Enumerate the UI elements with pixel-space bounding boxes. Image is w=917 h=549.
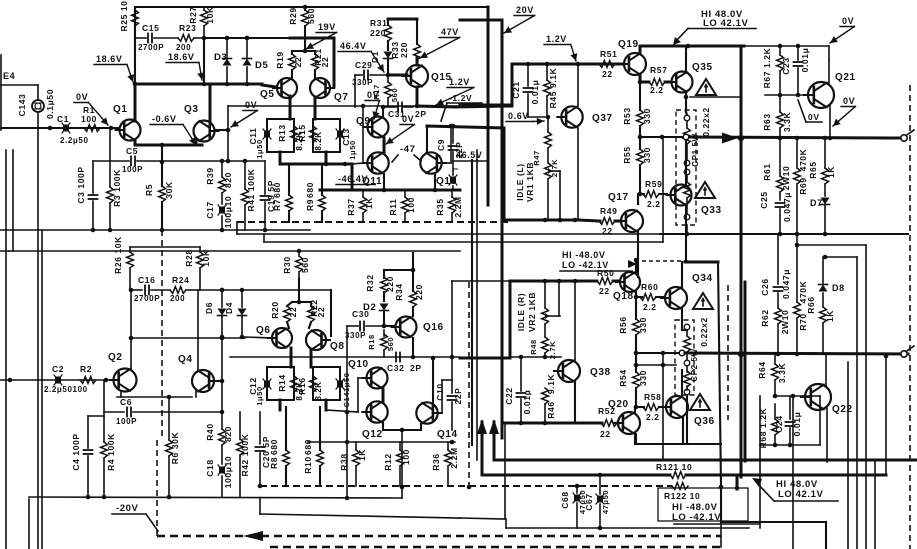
- wire Q33 coll: [685, 138, 687, 184]
- svg-text:Q1: Q1: [113, 104, 128, 115]
- resistor R31: [370, 18, 391, 50]
- pot VR2: [542, 281, 560, 337]
- label 0V Q9: [365, 90, 380, 119]
- wire Q38 emitter: [574, 382, 576, 423]
- svg-text:Q12: Q12: [362, 429, 383, 440]
- capacitor C32: [387, 353, 422, 374]
- wire Q35 coll: [685, 46, 687, 72]
- dashed bus 486: [260, 485, 672, 487]
- svg-text:2.7K: 2.7K: [550, 159, 559, 177]
- svg-text:R63: R63: [762, 113, 772, 130]
- svg-text:C25: C25: [759, 191, 769, 208]
- wire C21R45 bot: [528, 116, 548, 118]
- wire nest b7: [735, 282, 745, 490]
- svg-text:R59: R59: [645, 179, 662, 189]
- wire fb nest 2: [823, 255, 857, 549]
- svg-text:680: 680: [305, 182, 315, 198]
- svg-text:R67 1.2K: R67 1.2K: [762, 47, 772, 88]
- svg-text:2P: 2P: [410, 363, 422, 373]
- resistor R36: [431, 442, 459, 486]
- capacitor C143: [17, 94, 44, 117]
- capacitor C25: [759, 191, 792, 236]
- wire nest b3: [759, 445, 761, 528]
- capacitor C30: [345, 309, 384, 412]
- svg-text:Q37: Q37: [592, 113, 613, 124]
- wire Q38 base bus: [510, 355, 561, 360]
- svg-text:Q10: Q10: [348, 359, 369, 370]
- wire Q17 coll: [637, 194, 639, 204]
- wire Q9-Q11: [383, 138, 386, 152]
- transistor Q6: [256, 325, 292, 348]
- warning triangle Q35: [696, 79, 716, 95]
- resistor R62: [760, 234, 791, 308]
- svg-text:C2: C2: [52, 364, 64, 374]
- svg-text:R39: R39: [205, 167, 215, 184]
- svg-text:LO 42.1V: LO 42.1V: [703, 18, 749, 29]
- svg-text:560: 560: [386, 337, 395, 351]
- wire Q2 coll: [130, 338, 132, 370]
- svg-text:C5: C5: [126, 146, 138, 156]
- svg-text:22: 22: [288, 307, 298, 318]
- svg-text:D7: D7: [810, 198, 823, 208]
- label 20V: [504, 5, 535, 33]
- wire 20V rail a: [305, 7, 488, 205]
- dashed vert 724: [727, 285, 729, 420]
- dashed R5 fb: [162, 230, 471, 489]
- capacitor C1: [57, 114, 89, 145]
- svg-text:R32: R32: [365, 274, 375, 291]
- wire 84 rail ext: [212, 83, 262, 86]
- svg-text:R37: R37: [346, 198, 356, 215]
- svg-text:Q21: Q21: [835, 72, 856, 83]
- resistor R32: [365, 253, 415, 301]
- svg-text:1K: 1K: [357, 449, 367, 461]
- svg-text:8.2K: 8.2K: [314, 131, 323, 150]
- resistor R63: [762, 95, 792, 137]
- resistor R55: [622, 146, 652, 196]
- resistor R16: [297, 367, 340, 401]
- resistor R52: [578, 406, 618, 439]
- wire 234 bus: [237, 222, 660, 234]
- capacitor C23: [781, 46, 810, 95]
- svg-text:Q7: Q7: [334, 92, 349, 103]
- label HI48 top: [673, 9, 756, 45]
- svg-text:R64: R64: [757, 361, 767, 378]
- resistor R68: [760, 396, 775, 445]
- transistor Q20: [608, 399, 640, 434]
- svg-text:C3 100P: C3 100P: [76, 166, 86, 203]
- svg-text:R56: R56: [618, 316, 628, 333]
- resistor R14: [277, 374, 304, 400]
- wire R68 box: [760, 396, 820, 445]
- wire idle L net: [546, 115, 551, 132]
- diode D1: [370, 51, 393, 77]
- diode D3: [214, 36, 232, 87]
- label CP1: [691, 107, 711, 167]
- svg-text:2.2: 2.2: [647, 199, 661, 209]
- svg-text:D6: D6: [204, 302, 214, 314]
- svg-text:0.01μ: 0.01μ: [792, 412, 802, 437]
- wire top rail: [135, 5, 307, 10]
- svg-text:CP2 5W: CP2 5W: [690, 348, 699, 381]
- resistor R10: [303, 407, 323, 486]
- resistor R27: [135, 6, 215, 38]
- transistor Q5: [260, 78, 297, 100]
- label HI48 low: [752, 478, 838, 501]
- svg-text:C10: C10: [435, 383, 445, 400]
- svg-text:-47: -47: [400, 144, 416, 155]
- label -1.2V: [441, 93, 482, 121]
- wire C6768 bot: [506, 519, 749, 528]
- svg-text:LO -42.1V: LO -42.1V: [672, 512, 721, 523]
- svg-text:0.22x2: 0.22x2: [699, 317, 709, 347]
- wire right rail low: [743, 410, 745, 462]
- svg-text:Q19: Q19: [618, 39, 639, 50]
- resistor R22: [308, 299, 326, 328]
- capacitor C13 1u50: [336, 128, 357, 159]
- capacitor C2: [44, 364, 88, 394]
- svg-text:0.1μ50: 0.1μ50: [45, 89, 55, 119]
- rail R56 R54: [635, 297, 637, 319]
- resistor R3: [107, 128, 122, 230]
- svg-text:R15: R15: [297, 124, 307, 141]
- svg-text:R27: R27: [188, 6, 198, 23]
- svg-text:220: 220: [370, 28, 386, 38]
- svg-text:22: 22: [316, 307, 326, 318]
- transistor Q14: [416, 380, 457, 440]
- svg-text:R38: R38: [339, 453, 349, 470]
- wire Q36 emitter: [635, 418, 721, 444]
- wire 18.6V node rail: [134, 38, 136, 84]
- wire 412: [240, 411, 260, 413]
- svg-text:R25 10: R25 10: [119, 0, 129, 31]
- dashed bus 222: [237, 221, 510, 223]
- transistor Q10: [348, 359, 388, 412]
- svg-text:330: 330: [642, 147, 652, 163]
- svg-text:22P: 22P: [454, 142, 464, 159]
- svg-text:2.2μ50100: 2.2μ50100: [44, 385, 88, 394]
- svg-text:R10: R10: [303, 456, 313, 473]
- resistor R54: [618, 365, 648, 409]
- svg-text:R4 100K: R4 100K: [106, 433, 116, 471]
- svg-text:R14: R14: [277, 374, 287, 391]
- svg-text:IDLE (L): IDLE (L): [515, 163, 525, 200]
- svg-text:R2: R2: [80, 364, 92, 374]
- label 0V Q1: [74, 92, 108, 125]
- svg-text:C24: C24: [774, 415, 784, 432]
- wire Q16 base: [384, 325, 395, 327]
- resistor R40: [205, 412, 233, 445]
- wire 161 thin: [93, 160, 265, 162]
- svg-text:22: 22: [602, 69, 613, 79]
- sensor CP2 box: [675, 320, 694, 395]
- label 18.6V a: [94, 54, 134, 82]
- capacitor C22: [504, 355, 532, 423]
- transistor Q8: [306, 330, 345, 352]
- svg-text:R48: R48: [529, 339, 538, 355]
- wire gnd bus upper: [0, 228, 310, 233]
- wire Q34 coll: [681, 262, 683, 288]
- label -20V: [112, 503, 158, 531]
- svg-text:0V: 0V: [76, 92, 88, 102]
- wire R31 top: [388, 18, 417, 21]
- capacitor C19: [261, 161, 277, 232]
- resistor R29: [288, 7, 316, 51]
- label 46.4V: [338, 41, 384, 72]
- label HI-48 low box: [658, 488, 760, 524]
- svg-text:C1: C1: [57, 114, 69, 124]
- capacitor C12: [248, 367, 294, 406]
- svg-text:R66: R66: [806, 296, 816, 313]
- svg-text:100P: 100P: [116, 417, 137, 426]
- resistor R61: [762, 138, 791, 200]
- svg-text:R20: R20: [270, 301, 280, 318]
- capacitor C29: [352, 60, 388, 107]
- transistor Q22: [801, 384, 853, 415]
- wire Q13 up: [415, 104, 420, 109]
- resistor CP1a: [684, 115, 691, 166]
- capacitor C67: [584, 473, 610, 531]
- wire out bus 234: [660, 233, 908, 235]
- resistor R12: [383, 442, 411, 486]
- resistor R68b: [758, 396, 778, 448]
- wire R20R22 top: [292, 279, 311, 304]
- svg-text:2700P: 2700P: [134, 294, 160, 303]
- resistor R60: [634, 258, 688, 300]
- wire 64 bus: [512, 62, 624, 67]
- diode D6: [204, 288, 227, 340]
- svg-text:19V: 19V: [318, 22, 336, 32]
- svg-text:8.2K: 8.2K: [314, 381, 323, 400]
- resistor R1: [81, 105, 100, 131]
- capacitor C68: [560, 484, 587, 528]
- resistor R121: [656, 462, 692, 478]
- svg-text:R122 10: R122 10: [664, 491, 700, 501]
- wire right 46 rail: [744, 44, 829, 49]
- svg-text:VR1 1KB: VR1 1KB: [525, 162, 535, 202]
- svg-text:100μ10: 100μ10: [223, 456, 233, 488]
- wire 357 bus: [230, 356, 460, 358]
- svg-text:R34: R34: [394, 283, 404, 300]
- wire out bus 354: [634, 350, 908, 357]
- label 0V Q11: [386, 114, 414, 144]
- wire idle2 bus: [505, 421, 575, 519]
- label 18.6V b: [166, 52, 204, 80]
- resistor R9: [305, 164, 325, 222]
- warning triangle Q34: [693, 293, 713, 309]
- svg-text:C15: C15: [142, 23, 159, 33]
- wire q15 47 rail: [416, 58, 419, 65]
- wire thick 105: [460, 64, 512, 105]
- svg-text:0V: 0V: [843, 96, 855, 106]
- svg-text:VR2 1KB: VR2 1KB: [527, 292, 537, 332]
- wire nest b8: [685, 206, 724, 489]
- resistor R59: [640, 179, 667, 209]
- svg-text:100: 100: [81, 114, 97, 124]
- resistor R51: [578, 49, 624, 79]
- svg-text:0.01μ: 0.01μ: [800, 48, 810, 73]
- resistor R8: [269, 407, 289, 486]
- svg-text:R36: R36: [431, 453, 441, 470]
- terminal out2: [901, 346, 914, 357]
- wire C16 down: [129, 288, 134, 338]
- svg-text:R6 30K: R6 30K: [170, 432, 180, 465]
- svg-text:Q17: Q17: [608, 192, 629, 203]
- label 1.2V: [544, 34, 577, 61]
- resistor R57: [638, 65, 671, 95]
- svg-text:9.1K: 9.1K: [546, 374, 556, 395]
- wire 499 bus ext: [345, 440, 350, 445]
- svg-text:220: 220: [399, 42, 409, 58]
- svg-text:D4: D4: [224, 302, 234, 314]
- svg-text:1K: 1K: [364, 197, 374, 209]
- svg-text:D5: D5: [255, 60, 268, 71]
- pot VR1: [515, 162, 560, 220]
- svg-text:-20V: -20V: [116, 503, 139, 514]
- svg-text:R12: R12: [383, 453, 393, 470]
- wire 442 bus: [308, 441, 455, 443]
- label 19V: [306, 22, 337, 49]
- resistor CP1b: [684, 169, 691, 220]
- svg-text:0V: 0V: [245, 100, 257, 110]
- svg-text:2W10: 2W10: [781, 166, 791, 191]
- svg-text:C18: C18: [205, 459, 215, 476]
- resistor R41: [242, 159, 256, 230]
- svg-text:R9: R9: [305, 199, 315, 211]
- svg-text:1μ50: 1μ50: [348, 140, 357, 160]
- wire top right thin: [414, 7, 660, 9]
- wire R30 down: [298, 272, 300, 279]
- svg-text:Q34: Q34: [692, 273, 713, 284]
- wire Q6 emitter: [290, 348, 293, 367]
- svg-text:R8: R8: [269, 457, 279, 469]
- svg-text:0.6V: 0.6V: [508, 111, 529, 121]
- svg-text:R3 100K: R3 100K: [112, 169, 122, 207]
- diode D5: [243, 36, 269, 87]
- label 0V base: [798, 100, 822, 122]
- resistor R13: [277, 124, 304, 150]
- dashed right edge: [909, 85, 911, 549]
- resistor R23: [176, 23, 204, 52]
- wire Q38 coll: [574, 281, 576, 360]
- capacitor C20: [256, 412, 272, 488]
- transistor Q4: [178, 354, 224, 392]
- svg-text:30K: 30K: [164, 181, 174, 199]
- capacitor C18: [205, 445, 233, 497]
- svg-text:Q14: Q14: [437, 429, 458, 440]
- resistor R47: [532, 132, 559, 177]
- wire fb long: [460, 518, 505, 519]
- resistor R67: [762, 46, 783, 95]
- svg-text:1.2V: 1.2V: [546, 34, 567, 44]
- resistor R2: [80, 364, 108, 383]
- wire fb nest 3: [844, 233, 846, 235]
- label 0V emit: [833, 96, 855, 126]
- svg-text:R49: R49: [600, 206, 617, 216]
- wire 290 bus: [200, 288, 331, 336]
- wire 475 ext: [686, 354, 888, 475]
- svg-text:R57: R57: [650, 65, 667, 75]
- transistor Q2: [108, 352, 137, 392]
- label -0.6V: [150, 114, 196, 145]
- svg-text:C4 100P: C4 100P: [71, 433, 81, 470]
- label 0V tr: [829, 16, 854, 60]
- wire Q3 collector: [209, 84, 212, 121]
- svg-text:R51: R51: [600, 49, 617, 59]
- wire out bus 137: [638, 134, 900, 141]
- svg-text:22: 22: [320, 57, 330, 68]
- wire -46.4 bus: [320, 164, 460, 190]
- resistor R5: [144, 160, 174, 230]
- svg-text:0V: 0V: [842, 16, 854, 26]
- svg-text:0.01μ: 0.01μ: [522, 390, 532, 415]
- svg-text:0.01μ: 0.01μ: [530, 80, 540, 105]
- label 47V: [420, 27, 460, 58]
- transistor Q34: [661, 273, 713, 309]
- svg-text:820: 820: [223, 172, 233, 188]
- wire Q15 emitter: [417, 87, 455, 107]
- svg-text:1K: 1K: [825, 310, 835, 322]
- svg-text:330P: 330P: [345, 331, 366, 340]
- svg-text:22: 22: [600, 429, 611, 439]
- wire top right rail: [690, 46, 741, 477]
- svg-text:R17: R17: [372, 84, 381, 100]
- svg-text:Q36: Q36: [694, 416, 715, 427]
- svg-text:Q35: Q35: [692, 62, 713, 73]
- diode D2: [363, 302, 389, 328]
- svg-text:2P: 2P: [415, 109, 427, 119]
- svg-text:R70: R70: [798, 313, 808, 330]
- resistor R42: [237, 412, 250, 497]
- sensor CP1 box: [676, 110, 696, 225]
- svg-text:−: −: [453, 164, 459, 174]
- wire Q22 coll: [825, 354, 827, 386]
- transistor Q1: [113, 104, 141, 141]
- svg-text:200: 200: [170, 294, 185, 303]
- wire input: [0, 126, 119, 131]
- wire Q17 emitter: [637, 232, 639, 277]
- svg-text:R65: R65: [808, 161, 818, 178]
- wire Q20 coll: [634, 407, 636, 413]
- wire q2 input rail: [8, 250, 10, 252]
- wire Q19 coll: [640, 44, 744, 53]
- svg-text:C16: C16: [138, 275, 155, 285]
- svg-text:820: 820: [223, 426, 233, 442]
- resistor R30: [282, 249, 310, 279]
- svg-text:R58: R58: [644, 392, 661, 402]
- svg-text:R60: R60: [641, 282, 658, 292]
- wire Q10-Q12: [382, 388, 385, 402]
- label CP2: [690, 317, 709, 382]
- svg-text:C143: C143: [17, 94, 27, 117]
- svg-text:100μ10: 100μ10: [223, 196, 233, 228]
- transistor Q11: [343, 127, 389, 187]
- wire Q21 coll: [827, 60, 829, 84]
- resistor R11: [388, 190, 416, 222]
- svg-text:20V: 20V: [516, 5, 534, 15]
- svg-text:680: 680: [269, 439, 279, 455]
- svg-text:LO 42.1V: LO 42.1V: [778, 489, 824, 500]
- resistor R35: [435, 190, 463, 222]
- svg-text:R41 100K: R41 100K: [246, 168, 256, 211]
- svg-text:Q4: Q4: [178, 354, 193, 365]
- svg-text:R50: R50: [597, 268, 614, 278]
- resistor R25: [119, 0, 138, 31]
- svg-text:47V: 47V: [441, 27, 459, 37]
- warning triangle Q33: [695, 182, 715, 198]
- svg-text:100P: 100P: [122, 165, 143, 174]
- svg-text:2.2: 2.2: [646, 412, 660, 422]
